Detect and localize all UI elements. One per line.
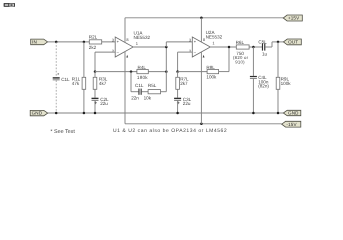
node IN / R1L branch [83,41,86,44]
node C3L / GND rail [176,112,179,115]
svg-text:100k: 100k [206,75,217,80]
node series branch tap [130,70,133,73]
svg-text:180k: 180k [137,75,148,80]
svg-text:OUT: OUT [288,40,298,45]
wire output vertical stage1 [165,47,167,92]
wire jog up to OUT row [271,42,273,47]
resistor R3L [93,77,97,89]
wire R9L to GND [277,89,279,113]
svg-text:IN: IN [32,40,37,45]
wire R8L to output vertical [219,71,229,73]
wire GND rail [48,112,284,114]
svg-text:910): 910) [235,60,245,65]
wire cap to R5L [142,91,148,93]
resistor R9L [276,77,280,89]
node R4L / output vertical [165,70,168,73]
resistor R5L [148,90,160,94]
wire C3L to GND [177,101,179,113]
wire C2L to GND [94,101,96,113]
connector IN [31,39,48,45]
svg-text:U1 & U2 can also be OPA2134 or: U1 & U2 can also be OPA2134 or LM4562 [113,128,227,134]
svg-text:10k: 10k [144,96,152,101]
node U2A output junction [228,46,231,49]
svg-text:22n: 22n [131,96,139,101]
svg-text:R4L: R4L [138,65,147,70]
svg-text:8: 8 [203,37,205,42]
capacitor C4L [250,76,257,79]
wire to OUT [272,41,283,43]
wire IN node to R1L [83,42,85,77]
svg-text:R2L: R2L [89,35,98,40]
wire U1A pin4 to -15V [124,52,126,124]
svg-text:1u: 1u [262,51,268,56]
wire node to R7L [177,72,179,78]
node U2A pin8 junction on +15V rail [200,17,203,20]
capacitor C1L [53,77,60,80]
op-amp U1A [115,37,133,57]
svg-text:NE5532: NE5532 [206,34,223,39]
svg-text:-15V: -15V [286,122,297,127]
svg-text:22u: 22u [100,101,108,106]
svg-text:100k: 100k [281,81,292,86]
svg-text:+15V: +15V [288,16,300,21]
wire U2A pin2 left [178,51,193,53]
node C4L tap [252,46,255,49]
wire junction up to U2A pin3 row [165,42,167,47]
wire -15V rail [125,123,282,125]
wire R5L to vertical [161,91,167,93]
node C2L / GND rail [94,112,97,115]
logo top-left [4,3,15,7]
connector OUT [283,39,301,45]
node feedback stage1 [94,70,97,73]
wire IN to U1A pin3 [48,41,116,43]
node OUT / R9L [277,41,280,44]
wire to C1L series cap [131,91,138,93]
resistor R8L [207,70,219,74]
node IN / C1L branch [55,41,58,44]
svg-text:GND: GND [32,111,43,116]
wire U2A pin4 to -15V [200,52,202,124]
connector GND left [30,110,48,115]
wire node to R3L [94,72,96,78]
svg-text:C5L: C5L [258,39,267,44]
svg-text:C1L: C1L [135,83,144,88]
wire R3L to C2L [94,89,96,97]
wire R6L to C5L [249,46,262,48]
wire U1A pin2 left [95,51,115,53]
power arrow U2A pin4 [203,55,205,58]
wire R7L to C3L [177,89,179,97]
node U1A output junction [165,46,168,49]
wire pin2 down stage2 [177,52,179,72]
power arrow U1A pin4 [126,55,128,58]
wire to U2A pin3 [166,41,192,43]
node feedback stage2 [176,70,179,73]
wire U1A output [133,46,166,48]
capacitor C3L [174,98,181,104]
wire U1A pin8 to +15V [124,18,126,42]
wire feedback row left [95,71,137,73]
wire R1L to GND [83,89,85,113]
wire tap down to C4L [252,47,254,76]
resistor R2L [89,40,101,44]
connector +15V [283,15,302,21]
op-amp U2A [192,37,210,57]
wire R4L to output branch [148,71,166,73]
wire feedback row stage2 [178,71,208,73]
svg-text:GND: GND [288,111,299,116]
wire pin2 down to feedback row [94,52,96,72]
capacitor C1L series 22n [138,89,141,95]
resistor R7L [176,77,180,89]
resistor R4L [137,70,148,74]
svg-text:(82n): (82n) [258,84,269,89]
node R9L / GND rail [277,112,280,115]
connector GND right [283,110,301,115]
wire C4L to GND [252,79,254,113]
svg-text:*: * [57,73,59,79]
svg-text:R8L: R8L [206,65,215,70]
connector -15V [282,121,301,127]
wire OUT node down to R9L [277,42,279,77]
svg-text:R5L: R5L [148,83,157,88]
svg-text:* See Text: * See Text [50,129,75,135]
wire U2A pin8 to +15V [200,18,202,42]
svg-text:47k: 47k [72,81,80,86]
wire tap down to series row [130,72,132,92]
svg-text:C1L: C1L [61,77,70,82]
svg-text:8: 8 [126,37,128,42]
node R1L / GND rail [83,112,86,115]
node C4L / GND rail [252,112,255,115]
svg-text:4k7: 4k7 [99,81,107,86]
svg-text:R6L: R6L [236,40,245,45]
wire U2A output [210,46,236,48]
wire output vertical stage2 [228,47,230,72]
node C1L / GND rail [55,112,58,115]
wire dashed C1L to GND [55,80,57,113]
svg-text:22u: 22u [183,101,191,106]
node U2A pin4 junction on -15V rail [200,123,203,126]
svg-text:2k2: 2k2 [89,45,97,50]
svg-text:2k7: 2k7 [180,81,188,86]
wire C5L right [265,46,272,48]
svg-text:NE5532: NE5532 [134,35,151,40]
capacitor C2L [92,98,99,104]
resistor R1L [82,77,86,89]
wire +15V rail [125,17,283,19]
resistor R6L [236,45,249,49]
wire dashed IN to C1L [55,42,57,77]
capacitor C5L [262,43,265,50]
